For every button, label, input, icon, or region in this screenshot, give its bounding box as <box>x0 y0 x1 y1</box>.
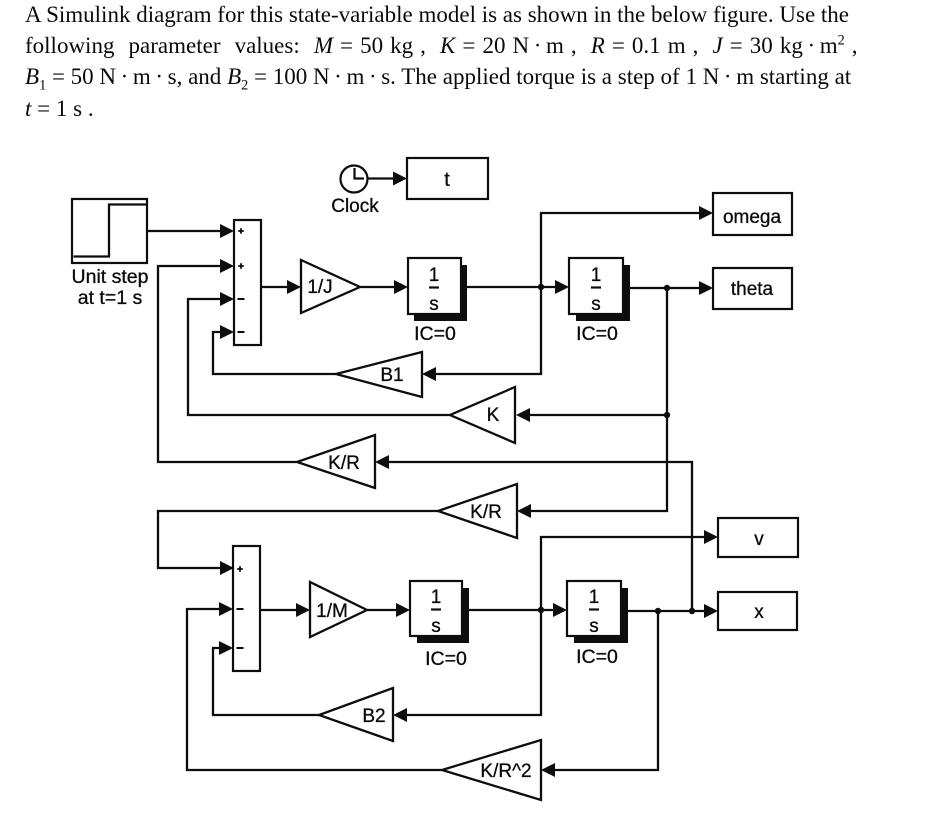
step source block (Unit step) <box>72 199 147 263</box>
wire 1/M to integrator I3 <box>367 603 410 617</box>
wire x node up to gain K/R upper <box>375 455 692 611</box>
wire gain 1/J to integrator I1 <box>360 280 408 294</box>
svg-text:v: v <box>754 529 764 550</box>
svg-text:K/R^2: K/R^2 <box>480 761 531 782</box>
wire S1 output to gain 1/J <box>261 280 301 294</box>
node at I3 output (v) <box>538 607 544 613</box>
svg-text:1: 1 <box>591 265 602 286</box>
display omega <box>713 193 792 235</box>
wire clock to t block <box>368 172 407 186</box>
integrator I1 (1/s) <box>408 258 467 321</box>
label Unit step at t=1 s <box>72 266 149 309</box>
wire I1 to I2 <box>461 280 569 294</box>
svg-text:IC=0: IC=0 <box>425 648 467 670</box>
svg-text:s: s <box>591 294 601 315</box>
integrator I3 (1/s) <box>410 581 469 643</box>
svg-text:IC=0: IC=0 <box>414 323 456 345</box>
to-workspace block t <box>407 158 488 199</box>
gain B2 <box>319 688 393 741</box>
svg-text:s: s <box>431 616 441 637</box>
svg-text:s: s <box>429 294 439 315</box>
wire B2 to S2 input 3 (-) <box>213 641 319 715</box>
svg-text:IC=0: IC=0 <box>576 646 618 668</box>
node at I2 output (theta) <box>664 285 670 291</box>
wire x node down to gain K/R^2 <box>541 611 658 777</box>
svg-text:at t=1 s: at t=1 s <box>78 287 143 309</box>
svg-text:theta: theta <box>731 279 774 300</box>
node on x line (to K/R^2) <box>655 608 661 614</box>
display x <box>718 592 797 630</box>
svg-text:Clock: Clock <box>331 196 379 217</box>
paragraph: problem statement <box>25 0 857 124</box>
wire K/R lower to S2 input 1 (+) <box>158 511 438 575</box>
svg-text:B1: B1 <box>380 365 403 386</box>
svg-text:K/R: K/R <box>470 502 502 523</box>
svg-text:omega: omega <box>723 207 782 228</box>
label Clock <box>331 196 379 217</box>
svg-text:1/M: 1/M <box>316 601 348 622</box>
gain K/R (lower) <box>438 484 517 538</box>
clock source <box>341 166 368 193</box>
node at I1 output <box>538 284 544 290</box>
svg-text:IC=0: IC=0 <box>576 323 618 345</box>
wire node up to display v <box>541 530 718 610</box>
svg-text:B2: B2 <box>362 706 385 727</box>
gain 1/J <box>301 260 360 313</box>
gain 1/M <box>310 582 367 637</box>
wire theta node down to gain K/R (lower tap) <box>517 288 667 518</box>
svg-text:K/R: K/R <box>328 453 360 474</box>
wire node to display omega <box>541 206 713 287</box>
wire node down to gain B2 <box>393 610 541 722</box>
display v <box>718 518 798 557</box>
sum block S2 <box>233 546 260 671</box>
wire node to gain K <box>516 408 667 422</box>
svg-text:s: s <box>589 616 599 637</box>
display theta <box>713 268 792 309</box>
wire step source to S1 input 1 (+) <box>147 224 234 238</box>
svg-text:t: t <box>444 169 450 191</box>
gain B1 <box>336 352 422 397</box>
wire node down to gain B1 <box>422 287 541 381</box>
wire S2 output to gain 1/M <box>260 603 310 617</box>
wire K/R^2 to S2 input 2 (-) <box>187 602 442 770</box>
gain K/R (upper) <box>297 435 375 488</box>
gain K/R^2 <box>442 740 541 800</box>
wire I3 to I4 <box>462 603 567 617</box>
wire I2 to display theta <box>623 281 713 295</box>
integrator I4 (1/s) <box>567 581 628 643</box>
wire K to S1 input 3 (-) <box>188 292 450 415</box>
svg-text:Unit step: Unit step <box>72 266 149 288</box>
gain K <box>450 387 515 443</box>
svg-text:1: 1 <box>429 265 440 286</box>
integrator I2 (1/s) <box>569 258 630 321</box>
node on theta feedback line <box>664 412 670 418</box>
svg-text:1: 1 <box>589 587 600 608</box>
svg-text:1/J: 1/J <box>307 277 332 298</box>
wire K/R upper to S1 input 2 (+) <box>158 259 297 462</box>
sum block S1 <box>234 220 261 345</box>
wire I4 to display x <box>621 604 718 618</box>
svg-text:1: 1 <box>431 587 442 608</box>
svg-text:K: K <box>487 405 500 426</box>
svg-text:x: x <box>754 602 764 623</box>
wire B1 to S1 input 4 (-) <box>213 325 336 374</box>
node on x line (to upper K/R) <box>689 608 695 614</box>
